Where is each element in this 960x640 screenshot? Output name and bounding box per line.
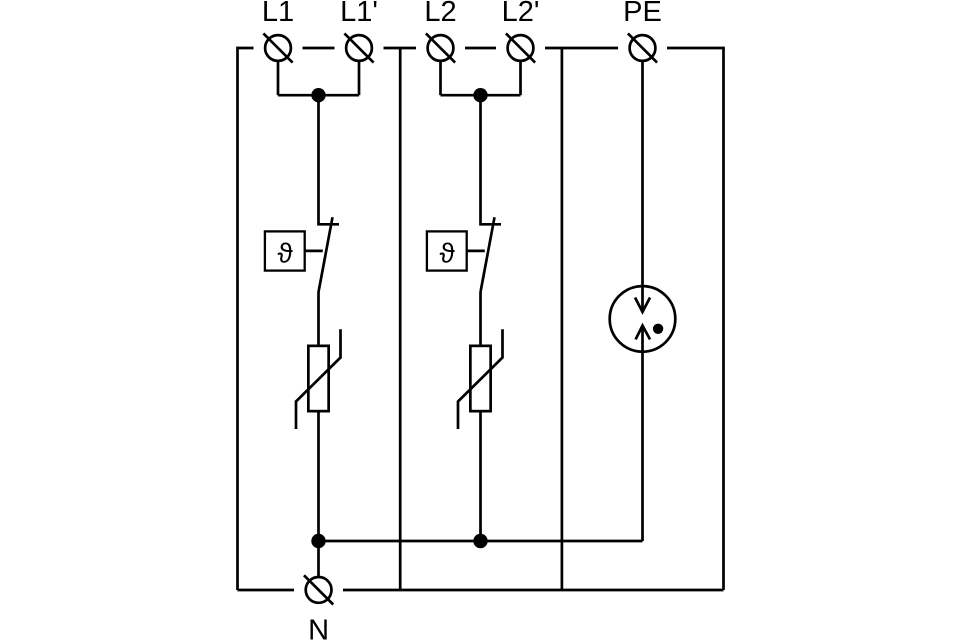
thermal sensor box (L2 branch) [427,231,467,270]
enclosure border bottom edge [238,589,724,592]
wire L1 terminal drop [277,62,280,95]
junction node varistor L2 to bus [473,534,487,548]
svg-text:PE: PE [623,0,662,28]
wire L2 terminal drop [439,62,442,95]
terminal PE [628,33,657,62]
terminal N [304,575,333,604]
wire spark gap to N bus [641,326,644,541]
svg-text:L1': L1' [340,0,378,28]
varistor RV2 body (L2 branch) [470,346,490,411]
terminal L1 [263,33,292,62]
thermal disconnector switch blade (L1 branch) [319,217,333,292]
wire varistor to N bus (L1 branch) [317,413,320,542]
junction node L2 branch top [473,88,487,102]
svg-text:ϑ: ϑ [278,238,294,269]
internal divider line 1 [399,48,402,590]
svg-text:ϑ: ϑ [440,238,456,269]
wire L2' terminal drop [519,62,522,95]
varistor RV2 diagonal stroke (L2 branch) [458,329,503,429]
wire L1' terminal drop [358,62,361,95]
spark gap circle [610,286,676,352]
wire bus to N terminal [317,541,320,576]
wire PE terminal to spark gap [641,62,644,312]
junction node varistor L1 to bus [311,534,325,548]
thermal sensor box (L1 branch) [265,231,305,270]
enclosure border top edge [238,47,724,50]
terminal L2 [426,33,455,62]
enclosure border right edge [722,47,725,590]
thermal disconnector switch blade (L2 branch) [481,217,495,292]
wire L2-L2' tie [441,94,521,97]
wire disconnector to varistor (L2 branch) [479,292,482,345]
thermal sensor link (L2 branch) [467,250,485,253]
svg-text:N: N [308,615,329,640]
spark gap gas-filled dot [653,324,663,334]
wire L1 branch down to disconnector [319,95,340,224]
N bus wire [319,540,643,543]
terminal L1' [344,33,373,62]
terminal L2' [506,33,535,62]
varistor RV1 body (L1 branch) [308,346,328,411]
wire varistor to N bus (L2 branch) [479,413,482,542]
enclosure border left edge [236,47,239,590]
thermal sensor link (L1 branch) [305,250,323,253]
wire L1-L1' tie [278,94,359,97]
internal divider line 2 [561,48,564,590]
wire disconnector to varistor (L1 branch) [317,292,320,345]
svg-text:L2': L2' [502,0,540,28]
svg-text:L1: L1 [262,0,294,28]
spark gap upper arrowhead [635,298,650,312]
varistor RV1 diagonal stroke (L1 branch) [296,329,341,429]
spark gap lower arrowhead [636,326,650,340]
wire L2 branch down to disconnector [481,95,502,224]
junction node L1 branch top [311,88,325,102]
svg-text:L2: L2 [424,0,456,28]
